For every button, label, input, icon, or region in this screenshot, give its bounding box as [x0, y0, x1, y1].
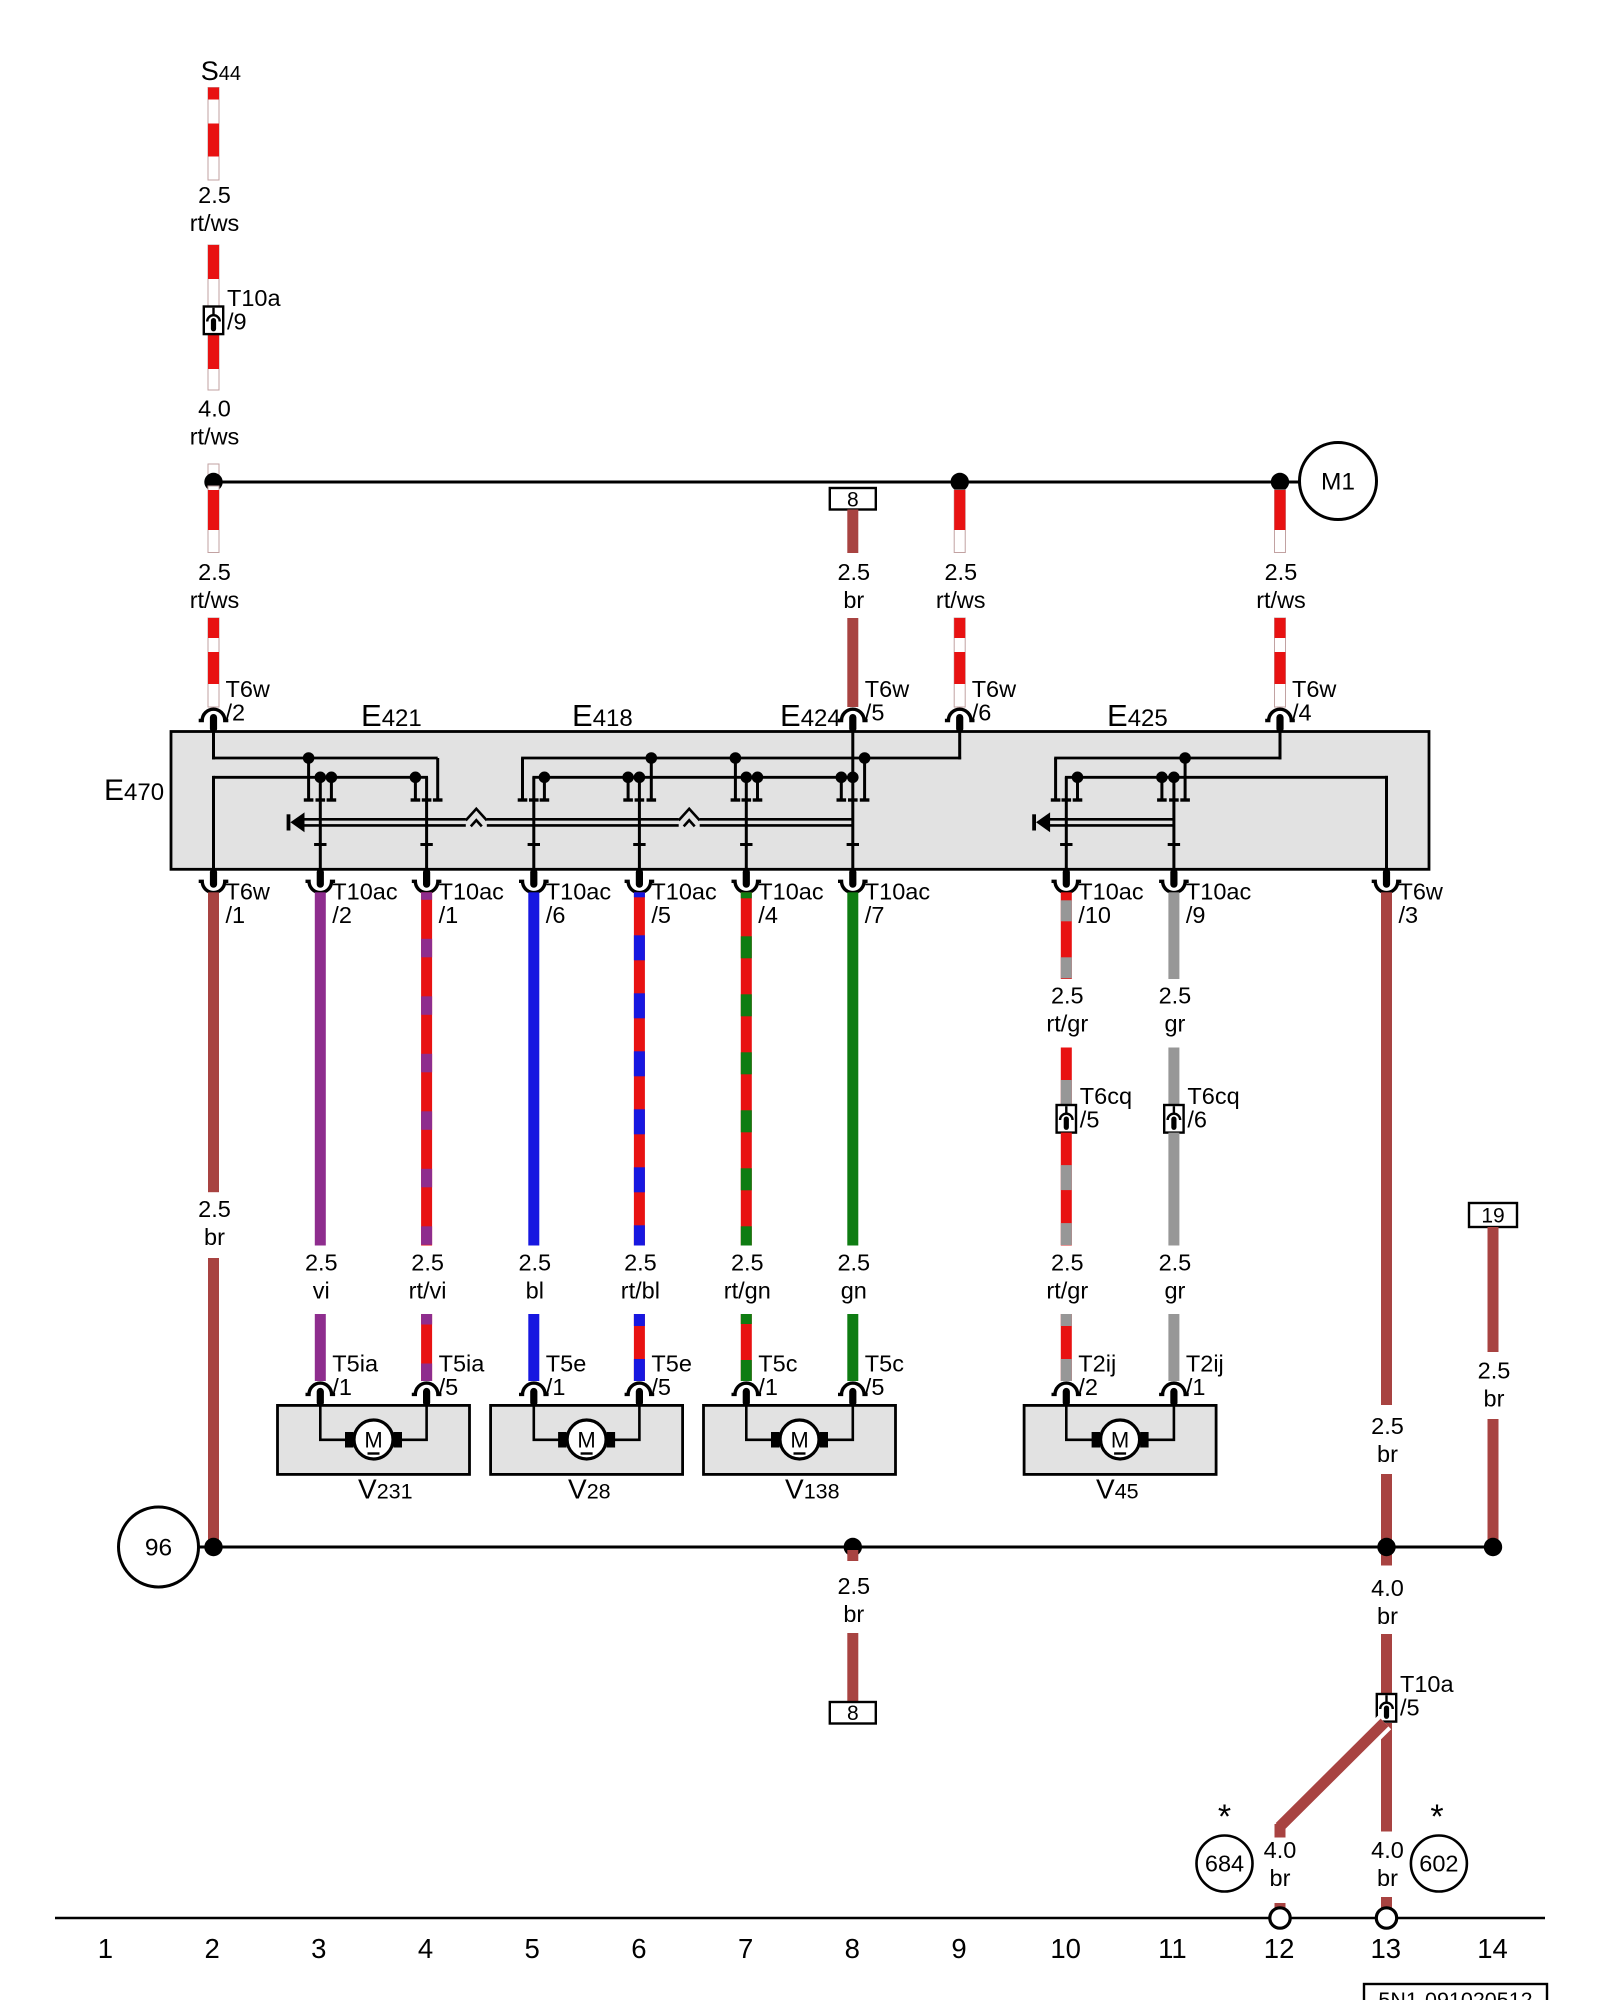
wire 2.5 rt/vi	[421, 892, 432, 1245]
junction L4 544	[539, 772, 551, 784]
junction L2 331	[326, 772, 338, 784]
pin T5e/1	[519, 1383, 549, 1394]
pin T5c/1	[732, 1383, 762, 1394]
contact stub 1055	[1054, 758, 1057, 799]
pin T10ac/6	[519, 881, 549, 892]
pin T2ij/2	[1052, 1383, 1082, 1394]
pin T5e/5	[625, 1383, 655, 1394]
svg-text:T6w: T6w	[1292, 676, 1337, 702]
svg-text:rt/vi: rt/vi	[409, 1277, 447, 1303]
motor V138	[704, 1405, 896, 1474]
junction L5 1185	[1179, 752, 1191, 764]
svg-text:rt/ws: rt/ws	[190, 587, 240, 613]
svg-text:/1: /1	[332, 1374, 352, 1400]
svg-text:*: *	[1218, 1798, 1231, 1836]
junction L4 852	[847, 772, 859, 784]
junction L4 639	[634, 772, 646, 784]
wire 2.5 br col2 lower	[208, 1258, 219, 1547]
ground node col2	[204, 1538, 222, 1556]
wire br stub above ring col12	[1275, 1903, 1286, 1908]
svg-text:13: 13	[1371, 1933, 1402, 1964]
svg-text:br: br	[843, 587, 864, 613]
junction L6 1173	[1168, 772, 1180, 784]
svg-text:/4: /4	[758, 902, 778, 928]
svg-text:br: br	[204, 1224, 225, 1250]
contact stub 735	[734, 758, 737, 799]
svg-text:bl: bl	[526, 1277, 544, 1303]
svg-text:4.0: 4.0	[1264, 1837, 1297, 1863]
svg-text:/2: /2	[332, 902, 352, 928]
svg-text:1: 1	[98, 1933, 113, 1964]
svg-text:8: 8	[847, 489, 859, 512]
svg-text:5N1-091020512: 5N1-091020512	[1378, 1988, 1532, 2000]
wire L5 feed from T6w/4	[1279, 732, 1282, 760]
svg-text:3: 3	[311, 1933, 326, 1964]
svg-text:2.5: 2.5	[198, 1196, 231, 1222]
svg-text:T10ac: T10ac	[651, 878, 717, 904]
svg-text:/6: /6	[546, 902, 566, 928]
svg-text:T6w: T6w	[865, 676, 910, 702]
junction L3 864	[859, 752, 871, 764]
svg-text:2.5: 2.5	[1159, 1250, 1192, 1276]
wire L3 feed from T6w/6	[958, 732, 961, 760]
svg-text:2.5: 2.5	[518, 1250, 551, 1276]
svg-text:602: 602	[1419, 1851, 1458, 1877]
svg-text:2.5: 2.5	[411, 1250, 444, 1276]
svg-text:T6w: T6w	[226, 878, 271, 904]
pin T6w/2	[199, 709, 229, 720]
linkage arrow E421-E424	[304, 818, 853, 821]
wire br stub above ring col13	[1381, 1897, 1392, 1908]
contact stub 651	[650, 758, 653, 799]
svg-text:gr: gr	[1164, 1010, 1185, 1036]
wire br col13 below T10a	[1381, 1723, 1392, 1832]
pin T10ac/5	[625, 881, 655, 892]
svg-text:2: 2	[204, 1933, 219, 1964]
junction L6 1077	[1072, 772, 1084, 784]
pin T10ac/9	[1159, 881, 1189, 892]
svg-text:M: M	[364, 1428, 382, 1453]
svg-text:96: 96	[145, 1535, 172, 1562]
svg-text:12: 12	[1264, 1933, 1295, 1964]
pin T10ac/7	[838, 881, 868, 892]
wire 4.0 rt/ws upper	[208, 245, 219, 390]
wire br to T6w/5	[847, 618, 858, 707]
junction L2 320	[315, 772, 327, 784]
pin T10ac/4	[732, 881, 762, 892]
reference box 19	[1469, 1203, 1517, 1227]
junction L1 308	[303, 752, 315, 764]
svg-text:2.5: 2.5	[305, 1250, 338, 1276]
connector T6cq/5	[1057, 1105, 1076, 1133]
contact wire 533 to T10ac/6	[532, 777, 535, 869]
wire 2.5 rt/bl	[634, 892, 645, 1245]
svg-text:/9: /9	[1186, 902, 1206, 928]
contact stub 757	[756, 777, 759, 799]
wire gr to T2ij/1	[1168, 1314, 1179, 1381]
svg-text:T6cq: T6cq	[1187, 1083, 1239, 1109]
svg-text:M1: M1	[1321, 469, 1355, 496]
pin T10ac/2	[306, 881, 336, 892]
svg-text:T10ac: T10ac	[865, 878, 931, 904]
svg-text:/6: /6	[972, 700, 992, 726]
svg-text:T5c: T5c	[865, 1351, 904, 1377]
svg-text:/6: /6	[1187, 1107, 1207, 1133]
svg-text:8: 8	[847, 1702, 859, 1725]
svg-text:/1: /1	[226, 902, 246, 928]
svg-text:2.5: 2.5	[837, 1250, 870, 1276]
svg-text:T10a: T10a	[227, 285, 281, 311]
svg-text:T10ac: T10ac	[439, 878, 505, 904]
svg-text:/2: /2	[226, 700, 246, 726]
wire rt/ws col12 upper	[1275, 490, 1286, 553]
wire L4 bus	[532, 776, 852, 779]
contact stub 1077	[1076, 777, 1079, 799]
ground ring col13	[1376, 1908, 1396, 1928]
svg-text:/2: /2	[1078, 1374, 1098, 1400]
svg-text:br: br	[1377, 1603, 1398, 1629]
svg-text:T5ia: T5ia	[332, 1351, 379, 1377]
pin T6w/3	[1372, 881, 1402, 892]
wire rt/ws col2 to T6w/2	[208, 618, 219, 707]
svg-text:/5: /5	[439, 1374, 459, 1400]
svg-text:br: br	[1377, 1865, 1398, 1891]
svg-text:2.5: 2.5	[198, 182, 231, 208]
svg-text:4: 4	[418, 1933, 433, 1964]
svg-text:rt/gr: rt/gr	[1046, 1277, 1088, 1303]
motor V45	[1024, 1405, 1216, 1474]
contact stub 1185	[1184, 758, 1187, 799]
svg-text:4.0: 4.0	[1371, 1837, 1404, 1863]
pin T5ia/5	[412, 1383, 442, 1394]
svg-text:/3: /3	[1399, 902, 1419, 928]
ground ring col12	[1270, 1908, 1290, 1928]
svg-text:T6w: T6w	[972, 676, 1017, 702]
wire rt/gr below T6cq	[1061, 1133, 1072, 1246]
wire 2.5 rt/gr upper	[1061, 892, 1072, 979]
svg-text:/5: /5	[651, 1374, 671, 1400]
contact stub 628	[627, 777, 630, 799]
svg-text:2.5: 2.5	[1051, 983, 1084, 1009]
contact wire 1173 to T10ac/9	[1172, 777, 1175, 869]
wire rt/bl to T5e/5	[634, 1314, 645, 1381]
wire br col13 to ground bus	[1381, 1474, 1392, 1566]
pin T6w/1	[199, 881, 229, 892]
contact stub 415	[414, 777, 417, 799]
svg-text:T10ac: T10ac	[1186, 878, 1252, 904]
wire rt/ws from S44	[208, 88, 219, 181]
svg-text:T10ac: T10ac	[546, 878, 612, 904]
svg-text:2.5: 2.5	[1371, 1413, 1404, 1439]
svg-text:T6w: T6w	[1399, 878, 1444, 904]
pin T10ac/1	[412, 881, 442, 892]
motor V28	[491, 1405, 683, 1474]
motor V231	[278, 1405, 470, 1474]
wire rt/vi to T5ia/5	[421, 1314, 432, 1381]
wire rt/ws col12 lower	[1275, 618, 1286, 707]
wire rt/ws col2 below node	[208, 486, 219, 553]
wire rt/gr mid	[1061, 1048, 1072, 1106]
svg-text:T5e: T5e	[546, 1351, 587, 1377]
svg-text:M: M	[1111, 1428, 1129, 1453]
contact stub 1161	[1160, 777, 1163, 799]
wire L6 bus to T6w/3	[1065, 776, 1388, 779]
wire 2.5 br col14	[1488, 1227, 1499, 1352]
wire br diagonal to col12	[1280, 1723, 1385, 1828]
svg-text:T5c: T5c	[758, 1351, 797, 1377]
svg-text:M: M	[577, 1428, 595, 1453]
wire 2.5 br col2	[208, 892, 219, 1192]
svg-text:4.0: 4.0	[198, 396, 231, 422]
wire br col8 to 8 box	[847, 1633, 858, 1702]
junction L2 415	[410, 772, 422, 784]
svg-text:/1: /1	[758, 1374, 778, 1400]
svg-text:T5ia: T5ia	[439, 1351, 486, 1377]
svg-text:E470: E470	[104, 774, 164, 807]
svg-text:T10ac: T10ac	[758, 878, 824, 904]
junction L3 651	[646, 752, 658, 764]
contact wire 320 to T10ac/2	[319, 777, 322, 869]
svg-text:/5: /5	[1400, 1695, 1420, 1721]
svg-text:8: 8	[845, 1933, 860, 1964]
svg-text:14: 14	[1477, 1933, 1508, 1964]
svg-text:T2ij: T2ij	[1186, 1351, 1224, 1377]
connector T10a/9	[204, 307, 223, 335]
wire br stub col8 below bus	[847, 1550, 858, 1561]
junction L4 628	[622, 772, 634, 784]
svg-text:/5: /5	[1080, 1107, 1100, 1133]
part number box	[1364, 1984, 1547, 2005]
svg-text:T10a: T10a	[1400, 1671, 1454, 1697]
reference box 8 bottom	[830, 1702, 876, 1724]
svg-text:br: br	[1377, 1441, 1398, 1467]
wire br col14 lower	[1488, 1419, 1499, 1547]
svg-text:T6cq: T6cq	[1080, 1083, 1132, 1109]
ground node col14	[1484, 1538, 1502, 1556]
reference box 8 top	[830, 488, 876, 510]
svg-text:T6w: T6w	[226, 676, 271, 702]
svg-text:/1: /1	[1186, 1374, 1206, 1400]
svg-text:4.0: 4.0	[1371, 1575, 1404, 1601]
svg-text:br: br	[843, 1601, 864, 1627]
svg-text:rt/ws: rt/ws	[1256, 587, 1306, 613]
pin T2ij/1	[1159, 1383, 1189, 1394]
contact wire 1066 to T10ac/10	[1065, 777, 1068, 869]
svg-text:2.5: 2.5	[1265, 559, 1298, 585]
wire 2.5 gn	[847, 892, 858, 1245]
junction L4 746	[741, 772, 753, 784]
wire 2.5 bl	[528, 892, 539, 1245]
svg-text:2.5: 2.5	[731, 1250, 764, 1276]
contact wire 426 to T10ac/1	[425, 777, 428, 869]
svg-text:2.5: 2.5	[837, 1573, 870, 1599]
wire 2.5 gr upper	[1168, 892, 1179, 979]
svg-text:9: 9	[951, 1933, 966, 1964]
wire L2 return to T6w/1	[214, 776, 429, 779]
node at S44 feed	[204, 473, 222, 491]
wire T6w/5 through to T10ac/7	[851, 732, 854, 870]
linkage break 689	[679, 817, 700, 829]
wire vi to T5ia/1	[315, 1314, 326, 1381]
wire br stub below 8 box	[847, 510, 858, 554]
ground bus wire	[199, 1546, 1494, 1549]
svg-text:2.5: 2.5	[198, 559, 231, 585]
wire br col13 to T10a	[1381, 1634, 1392, 1694]
svg-text:2.5: 2.5	[1159, 983, 1192, 1009]
wire bl to T5e/1	[528, 1314, 539, 1381]
pin T6w/5	[838, 709, 868, 720]
ground node col8	[844, 1538, 862, 1556]
svg-text:gn: gn	[841, 1277, 867, 1303]
wire 2.5 br col13	[1381, 892, 1392, 1405]
svg-text:rt/gn: rt/gn	[724, 1277, 771, 1303]
svg-text:/5: /5	[865, 1374, 885, 1400]
svg-text:gr: gr	[1164, 1277, 1185, 1303]
contact stub 308	[307, 758, 310, 799]
wire 2.5 vi	[315, 892, 326, 1245]
svg-text:7: 7	[738, 1933, 753, 1964]
svg-text:2.5: 2.5	[624, 1250, 657, 1276]
contact stub 841	[840, 777, 843, 799]
wire T6w/2 entry to L1	[212, 732, 215, 760]
linkage arrow E425	[1049, 818, 1174, 821]
svg-text:T10ac: T10ac	[332, 878, 398, 904]
svg-text:*: *	[1430, 1798, 1443, 1836]
svg-text:rt/ws: rt/ws	[190, 423, 240, 449]
svg-text:/9: /9	[227, 309, 247, 335]
wire rt/ws col9 lower	[954, 618, 965, 707]
wire positive bus	[214, 481, 1300, 484]
svg-text:rt/ws: rt/ws	[936, 587, 986, 613]
ground circle 684	[1197, 1836, 1253, 1892]
contact wire 639 to T10ac/5	[638, 777, 641, 869]
ground circle 96	[119, 1507, 199, 1587]
contact stub 522	[521, 758, 524, 799]
node column 12	[1271, 473, 1289, 491]
wire 2.5 rt/gn	[741, 892, 752, 1245]
svg-text:/4: /4	[1292, 700, 1312, 726]
svg-text:5: 5	[525, 1933, 540, 1964]
svg-text:19: 19	[1481, 1205, 1504, 1228]
wire br stub col12	[1275, 1824, 1286, 1838]
svg-text:rt/ws: rt/ws	[190, 210, 240, 236]
svg-text:br: br	[1270, 1865, 1291, 1891]
pin T6w/4	[1265, 709, 1295, 720]
svg-text:2.5: 2.5	[1478, 1358, 1511, 1384]
svg-text:/1: /1	[439, 902, 459, 928]
junction L4 757	[752, 772, 764, 784]
junction L3 735	[730, 752, 742, 764]
pin T6w/6	[945, 709, 975, 720]
contact stub 544	[543, 777, 546, 799]
svg-text:T10ac: T10ac	[1078, 878, 1144, 904]
svg-text:684: 684	[1205, 1851, 1244, 1877]
wire rt/gr to T2ij/2	[1061, 1314, 1072, 1381]
contact stub 331	[330, 777, 333, 799]
svg-text:/1: /1	[546, 1374, 566, 1400]
control unit E470 box	[171, 732, 1429, 870]
contact wire 746 to T10ac/4	[745, 777, 748, 869]
svg-text:M: M	[790, 1428, 808, 1453]
node column 9	[951, 473, 969, 491]
svg-text:2.5: 2.5	[944, 559, 977, 585]
linkage break 476	[466, 817, 487, 829]
connector T6cq/6	[1164, 1105, 1183, 1133]
svg-text:br: br	[1484, 1385, 1505, 1411]
pin T10ac/10	[1052, 881, 1082, 892]
svg-text:T2ij: T2ij	[1078, 1351, 1116, 1377]
wire rt/ws col9 upper	[954, 490, 965, 553]
svg-text:rt/gr: rt/gr	[1046, 1010, 1088, 1036]
svg-text:/5: /5	[651, 902, 671, 928]
svg-text:T5e: T5e	[651, 1351, 692, 1377]
ground node col13	[1377, 1538, 1395, 1556]
connector T10a/5	[1377, 1694, 1396, 1722]
pin T5ia/1	[306, 1383, 336, 1394]
contact stub 437	[436, 758, 439, 799]
svg-text:6: 6	[631, 1933, 646, 1964]
contact stub 864	[863, 758, 866, 799]
wire gr below T6cq	[1168, 1133, 1179, 1246]
pin T5c/5	[838, 1383, 868, 1394]
wire rt/gn to T5c/1	[741, 1314, 752, 1381]
junction L6 1161	[1156, 772, 1168, 784]
wire gr mid	[1168, 1048, 1179, 1106]
svg-text:/7: /7	[865, 902, 885, 928]
svg-text:/10: /10	[1078, 902, 1111, 928]
bottom rail	[55, 1917, 1545, 1919]
svg-text:/5: /5	[865, 700, 885, 726]
svg-text:10: 10	[1050, 1933, 1081, 1964]
svg-text:rt/bl: rt/bl	[621, 1277, 660, 1303]
ground circle 602	[1411, 1836, 1467, 1892]
junction L4 841	[836, 772, 848, 784]
svg-text:vi: vi	[313, 1277, 330, 1303]
svg-text:2.5: 2.5	[837, 559, 870, 585]
wire ws stub above node	[208, 464, 219, 479]
svg-text:2.5: 2.5	[1051, 1250, 1084, 1276]
motor M1	[1300, 443, 1377, 520]
svg-text:11: 11	[1158, 1933, 1187, 1964]
wire gn to T5c/5	[847, 1314, 858, 1381]
